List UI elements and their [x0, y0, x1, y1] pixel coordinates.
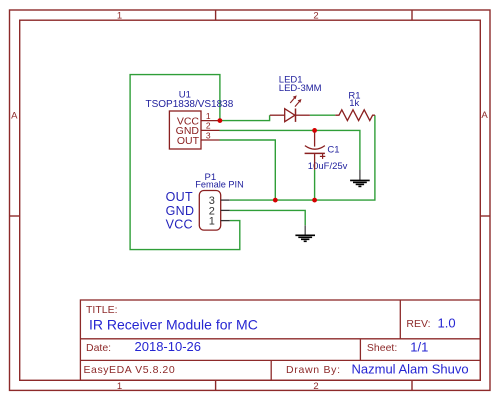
title block divider REV	[399, 300, 401, 339]
ground symbol bottom (P1 pin2)	[295, 225, 315, 241]
frame tick left	[10, 215, 20, 217]
C1 straight plate	[305, 152, 325, 154]
svg-text:1: 1	[209, 216, 215, 228]
LED triangle	[285, 109, 295, 122]
title block divider Sheet	[359, 339, 361, 361]
frame tick bottom 2	[411, 380, 413, 390]
C1 bottom lead	[314, 153, 316, 169]
P1 pin 3 stub	[221, 199, 230, 201]
svg-text:2: 2	[206, 121, 211, 131]
LED emission arrow 1	[290, 95, 297, 103]
P1 pin 1 stub	[221, 220, 230, 222]
frame tick top 1	[215, 10, 217, 20]
title block divider Drawn By	[270, 360, 272, 380]
LED cathode lead	[296, 114, 310, 116]
LED cathode bar	[295, 109, 297, 122]
C1 plus sign	[320, 154, 325, 159]
junction dot C1 bottom on OUT net	[312, 198, 317, 203]
U1 pin 1 line	[201, 120, 220, 122]
frame tick bottom 1	[215, 380, 217, 390]
svg-text:1: 1	[117, 10, 122, 21]
svg-text:C1: C1	[327, 145, 339, 156]
op U1 component box	[169, 111, 201, 149]
svg-text:IR Receiver Module for MC: IR Receiver Module for MC	[89, 317, 258, 333]
connector P1 body	[199, 191, 220, 231]
svg-text:OUT: OUT	[177, 135, 200, 147]
svg-text:1/1: 1/1	[410, 339, 428, 354]
junction dot U1 pin1 VCC	[218, 118, 223, 123]
svg-text:REV:: REV:	[406, 318, 430, 330]
svg-text:Sheet:: Sheet:	[367, 342, 397, 354]
svg-text:OUT: OUT	[166, 190, 193, 204]
P1 pin 2 stub	[221, 209, 230, 211]
C1 curved plate	[305, 146, 325, 150]
svg-text:2: 2	[313, 381, 318, 392]
svg-text:Date:: Date:	[86, 342, 111, 354]
LED D1 anode lead	[270, 114, 285, 116]
svg-text:VCC: VCC	[166, 217, 193, 231]
wire LED cathode to R1	[310, 114, 335, 116]
svg-text:1.0: 1.0	[438, 316, 456, 331]
resistor R1	[335, 110, 375, 121]
junction dot OUT net at U1 pin3 drop	[273, 198, 278, 203]
svg-text:LED-3MM: LED-3MM	[279, 83, 322, 94]
svg-text:3: 3	[206, 130, 211, 140]
title block row line 2	[80, 359, 480, 361]
title block outline	[80, 300, 480, 380]
svg-text:GND: GND	[166, 204, 195, 218]
wire R1 right down to OUT net	[230, 115, 375, 200]
frame tick right	[480, 215, 490, 217]
svg-text:2: 2	[313, 10, 318, 21]
svg-text:Female PIN: Female PIN	[195, 180, 244, 190]
wire U1 pin1 to LED anode	[220, 115, 270, 120]
svg-text:TSOP1838/VS1838: TSOP1838/VS1838	[145, 99, 233, 110]
svg-text:Nazmul Alam Shuvo: Nazmul Alam Shuvo	[352, 362, 469, 377]
wire P1 pin2 to ground	[230, 210, 305, 225]
wire C1 bottom to OUT net	[314, 170, 316, 200]
svg-text:TITLE:: TITLE:	[86, 304, 118, 316]
frame tick top 2	[411, 10, 413, 20]
svg-text:A: A	[11, 110, 18, 121]
svg-text:2018-10-26: 2018-10-26	[135, 339, 202, 354]
U1 pin 2 line	[201, 129, 220, 131]
U1 pin 3 line	[201, 139, 220, 141]
junction dot C1 top on GND wire	[312, 128, 317, 133]
svg-text:10uF/25v: 10uF/25v	[308, 161, 348, 172]
svg-text:1: 1	[206, 111, 211, 121]
ground symbol right (GND net)	[350, 170, 370, 186]
title block row line 1	[80, 338, 480, 340]
LED emission arrow 2	[295, 99, 302, 107]
wire U1 pin3 OUT down to net	[220, 140, 276, 200]
capacitor C1 top lead	[314, 130, 316, 146]
wire GND net U1 pin2 to ground	[220, 130, 360, 170]
wire VCC loop from U1 pin1 to P1 pin1	[130, 75, 240, 250]
svg-text:1k: 1k	[349, 98, 359, 109]
svg-text:EasyEDA V5.8.20: EasyEDA V5.8.20	[84, 364, 176, 376]
svg-text:1: 1	[117, 381, 122, 392]
svg-text:Drawn By:: Drawn By:	[286, 364, 341, 376]
svg-text:A: A	[481, 110, 488, 121]
